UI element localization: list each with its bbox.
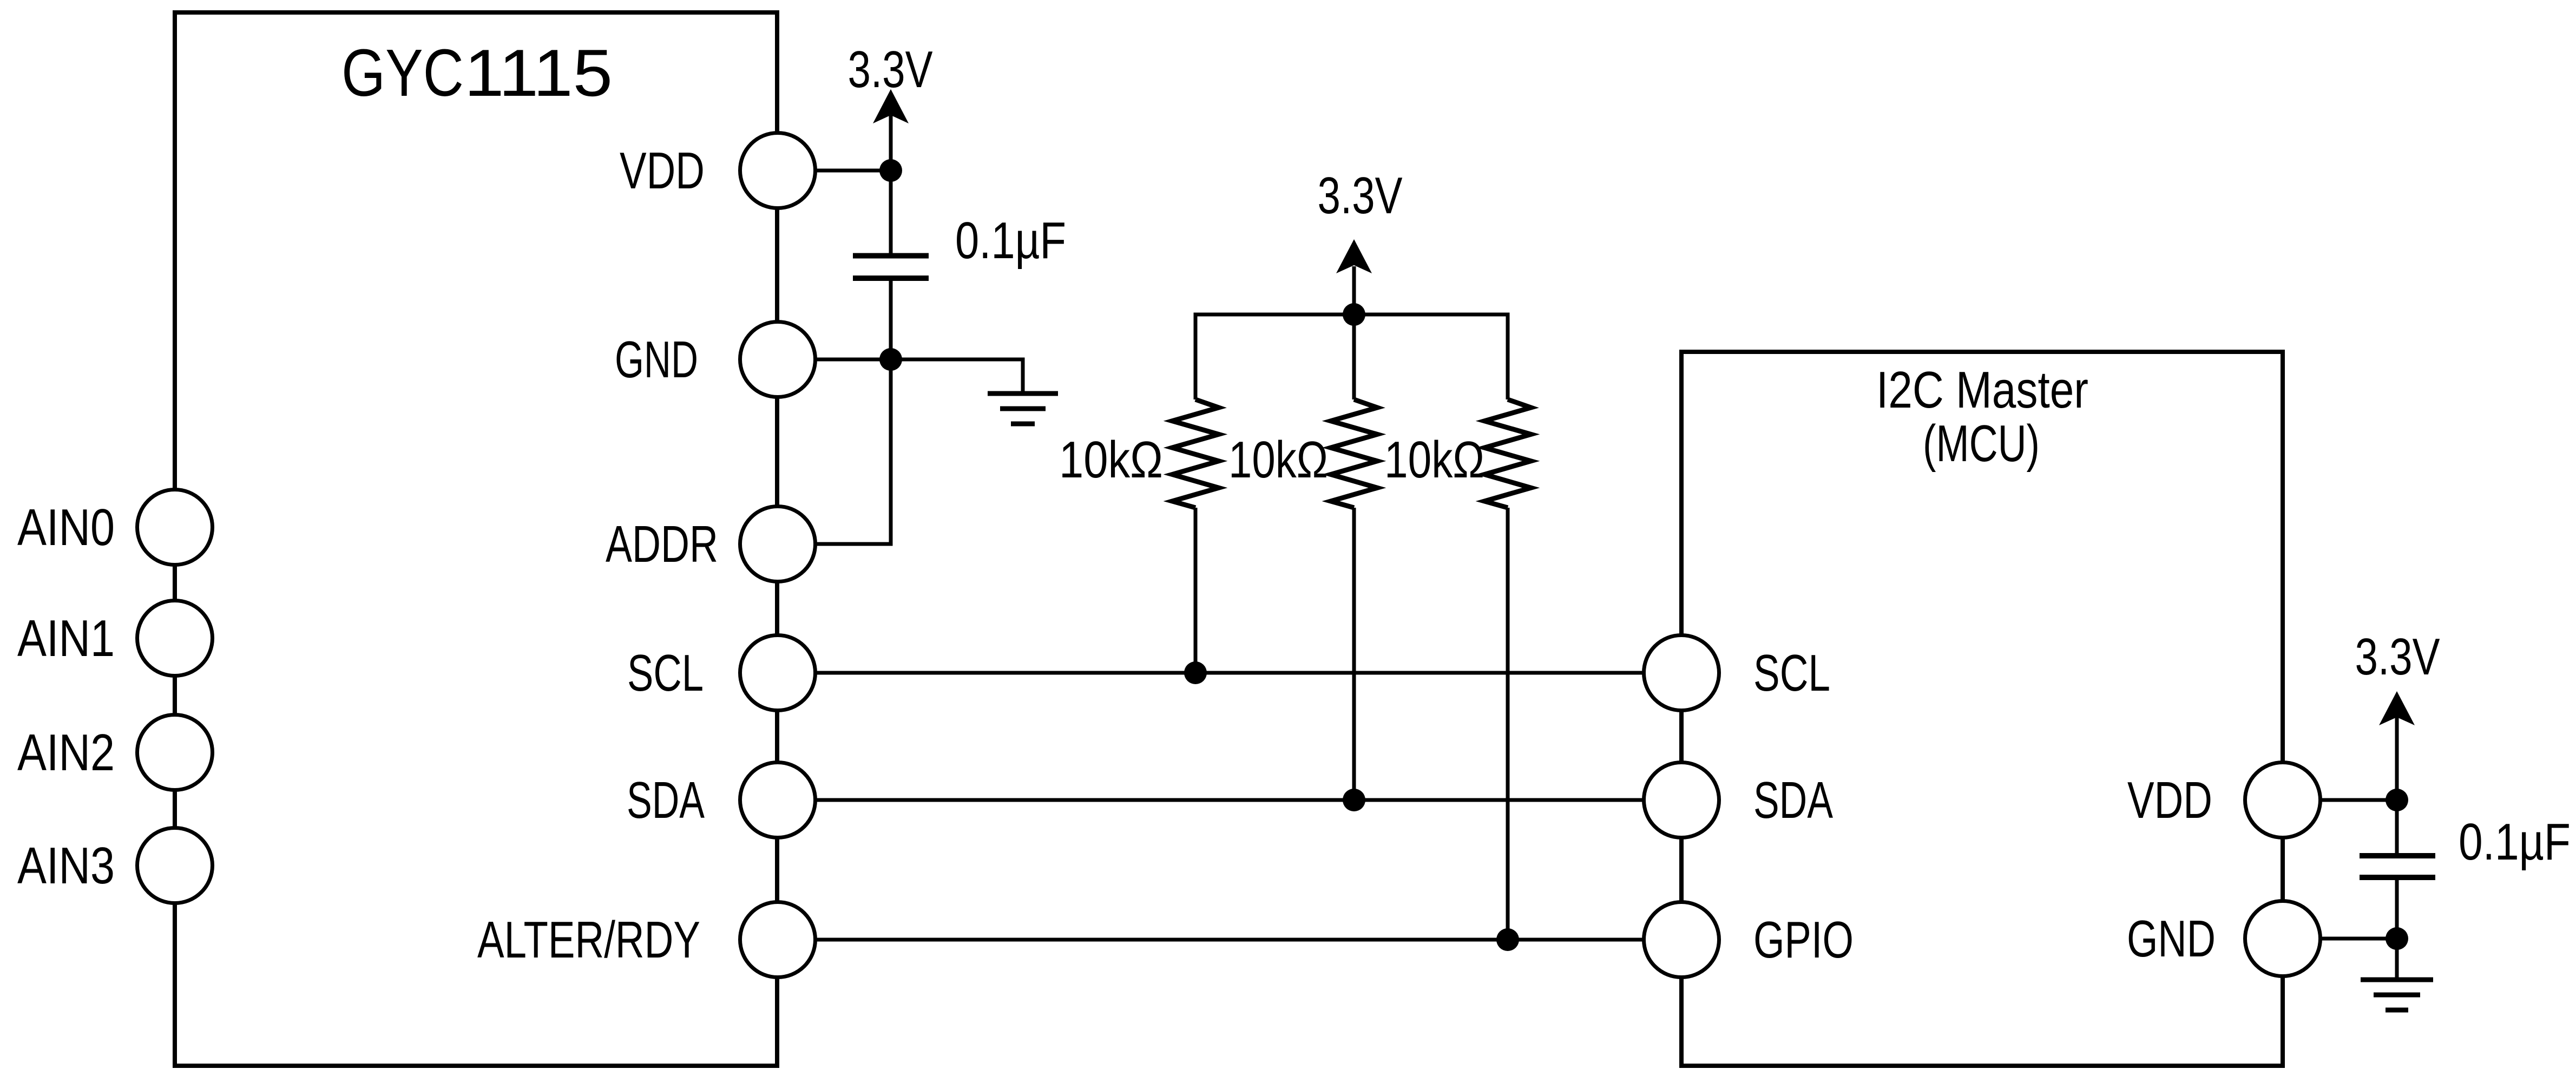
svg-text:3.3V: 3.3V — [1318, 167, 1403, 225]
svg-text:10kΩ: 10kΩ — [1059, 431, 1163, 489]
svg-text:3.3V: 3.3V — [2355, 628, 2440, 686]
svg-text:SCL: SCL — [627, 644, 704, 702]
svg-text:AIN2: AIN2 — [17, 724, 115, 782]
svg-text:GPIO: GPIO — [1753, 911, 1854, 969]
svg-text:SDA: SDA — [627, 771, 705, 829]
svg-text:VDD: VDD — [620, 142, 705, 200]
svg-text:0.1µF: 0.1µF — [2459, 813, 2571, 871]
svg-text:ADDR: ADDR — [606, 515, 718, 573]
svg-text:1115: 1115 — [464, 36, 613, 110]
svg-text:10kΩ: 10kΩ — [1384, 431, 1484, 489]
svg-text:AIN0: AIN0 — [17, 499, 115, 556]
svg-text:AIN3: AIN3 — [17, 837, 115, 895]
svg-text:GND: GND — [2127, 910, 2216, 968]
svg-text:10kΩ: 10kΩ — [1228, 431, 1328, 489]
svg-text:I2C Master: I2C Master — [1876, 361, 2088, 419]
svg-text:3.3V: 3.3V — [848, 41, 933, 99]
svg-text:AIN1: AIN1 — [17, 609, 115, 667]
svg-text:0.1µF: 0.1µF — [955, 212, 1066, 270]
svg-text:(MCU): (MCU) — [1923, 415, 2040, 473]
svg-text:VDD: VDD — [2127, 771, 2212, 829]
svg-text:SCL: SCL — [1753, 644, 1830, 702]
svg-text:SDA: SDA — [1753, 771, 1833, 829]
svg-text:GND: GND — [615, 331, 698, 389]
svg-text:ALTER/RDY: ALTER/RDY — [477, 911, 700, 969]
svg-text:GYC: GYC — [341, 36, 464, 110]
